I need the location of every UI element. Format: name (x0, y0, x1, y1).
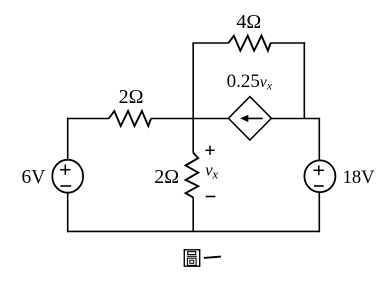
wire: bottom horizontal return (67, 230, 320, 232)
dependent current source U1 0.25vx (diamond) (228, 97, 271, 140)
wire: main horizontal from dependent source to right branch corner (271, 118, 320, 120)
wire: right branch vertical from 18V source to bottom (318, 192, 320, 232)
caption 圖 (Figure) drawn as strokes (184, 250, 199, 266)
wire: middle branch vertical from main horizontal to R3 (192, 119, 194, 153)
wire: left branch vertical from 6V source to bottom (67, 193, 69, 233)
wire: top loop upper-right horizontal segment (270, 42, 305, 44)
svg-text:2Ω: 2Ω (119, 86, 144, 108)
minus sign inside 6V source (60, 185, 71, 187)
voltage source V2 18V (circle) (304, 160, 335, 192)
resistor R2 2Ω (horizontal zigzag) (109, 111, 151, 126)
svg-text:18V: 18V (343, 168, 376, 188)
wire: top loop upper-left horizontal segment (192, 42, 228, 44)
resistor R1 4Ω (top horizontal zigzag) (228, 36, 270, 51)
resistor R3 2Ω (vertical zigzag) (186, 153, 199, 198)
minus sign inside 18V source (314, 185, 324, 187)
plus sign inside 6V source (60, 169, 70, 171)
svg-text:6V: 6V (22, 167, 46, 188)
label − of vx polarity (206, 196, 216, 198)
wire: main horizontal from R2 past middle node to dependent source (151, 118, 229, 120)
arrow inside dependent source (pointing left) (247, 117, 263, 119)
svg-text:0.25vx: 0.25vx (227, 71, 273, 92)
wire: middle branch vertical from R3 to bottom (192, 197, 194, 231)
wire: left branch vertical from main horizontal corner down to 6V source (67, 118, 69, 161)
svg-text:4Ω: 4Ω (236, 11, 261, 33)
wire: middle branch vertical from top loop corner down to main horizontal (192, 43, 194, 119)
plus sign inside 18V source (314, 169, 325, 171)
wire: right branch vertical from corner down to 18V source (318, 118, 320, 161)
svg-text:2Ω: 2Ω (154, 166, 179, 188)
voltage source V1 6V (circle) (52, 160, 83, 193)
label + of vx polarity (205, 149, 214, 151)
wire: main horizontal, left section from 6V branch corner to R2 (67, 118, 109, 120)
wire: top loop right vertical down to main horizontal (303, 42, 305, 118)
caption 一 (204, 257, 221, 258)
